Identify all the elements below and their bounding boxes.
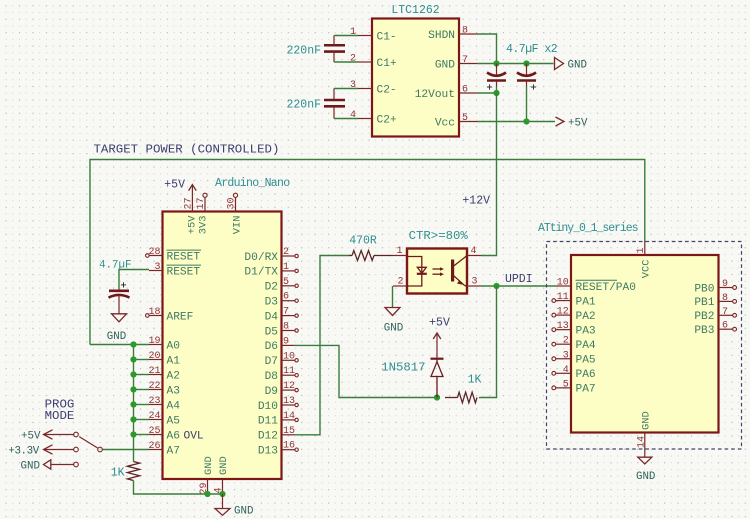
wire C1 to U1 bbox=[334, 35, 358, 37]
svg-text:D7: D7 bbox=[265, 356, 278, 368]
svg-text:A0: A0 bbox=[167, 340, 181, 352]
svg-text:AREF: AREF bbox=[167, 311, 194, 323]
wire C2 to U1 bbox=[334, 88, 358, 90]
svg-text:22: 22 bbox=[148, 381, 160, 392]
svg-text:+12V: +12V bbox=[462, 195, 490, 208]
diode D1 1N5817 bbox=[381, 359, 443, 398]
svg-text:5: 5 bbox=[563, 379, 569, 390]
IC U4 ATtiny_0_1_series bbox=[538, 222, 736, 448]
global label +5V (top right) bbox=[556, 117, 588, 130]
svg-text:VIN: VIN bbox=[232, 216, 244, 235]
svg-text:CTR>=80%: CTR>=80% bbox=[409, 229, 469, 243]
svg-text:GND: GND bbox=[234, 506, 253, 518]
svg-text:7: 7 bbox=[462, 55, 468, 66]
dashed outline box (ATtiny group) bbox=[547, 242, 742, 450]
global label GND (switch) bbox=[21, 460, 74, 473]
wire TARGET POWER net: A0 column to ATtiny VCC bbox=[90, 160, 645, 345]
wire A4 stub bbox=[134, 404, 150, 406]
svg-text:C2-: C2- bbox=[377, 85, 397, 97]
wire A2 stub bbox=[134, 374, 150, 376]
wire A5 stub bbox=[134, 419, 150, 421]
svg-text:4: 4 bbox=[350, 110, 356, 121]
resistor R1 1K (pulldown) bbox=[111, 462, 140, 481]
svg-text:30: 30 bbox=[227, 197, 238, 209]
wire R1 to GND rail bbox=[134, 481, 223, 495]
svg-text:PA6: PA6 bbox=[576, 369, 596, 381]
svg-text:2: 2 bbox=[397, 277, 403, 288]
svg-text:PA2: PA2 bbox=[576, 311, 596, 323]
svg-text:+3.3V: +3.3V bbox=[8, 445, 39, 457]
svg-text:D12: D12 bbox=[258, 431, 278, 443]
svg-text:D6: D6 bbox=[265, 341, 278, 353]
svg-text:220nF: 220nF bbox=[286, 45, 321, 58]
svg-text:1: 1 bbox=[636, 247, 647, 253]
svg-text:1N5817: 1N5817 bbox=[381, 361, 425, 375]
svg-text:1: 1 bbox=[283, 262, 289, 273]
capacitor C2 220nF bbox=[286, 89, 345, 119]
wire A3 stub bbox=[134, 389, 150, 391]
wire A column vertical bbox=[133, 345, 135, 462]
wire Vcc / +5V bbox=[478, 121, 556, 123]
junction diode/R4 bbox=[434, 394, 440, 400]
global label +5V (switch) bbox=[21, 430, 73, 443]
svg-text:21: 21 bbox=[148, 366, 160, 377]
IC U1 LTC1262 bbox=[350, 4, 478, 137]
svg-text:GND: GND bbox=[636, 471, 655, 483]
svg-text:D0/RX: D0/RX bbox=[244, 252, 278, 264]
svg-text:1: 1 bbox=[396, 246, 402, 257]
svg-text:+5V: +5V bbox=[164, 179, 185, 192]
svg-text:D8: D8 bbox=[265, 371, 278, 383]
svg-text:PB3: PB3 bbox=[694, 325, 714, 337]
ground (ATtiny) bbox=[636, 447, 655, 483]
svg-text:12: 12 bbox=[283, 381, 295, 392]
svg-text:18: 18 bbox=[148, 307, 160, 318]
svg-text:PB1: PB1 bbox=[694, 297, 714, 309]
wire U2 pin3 to C5 bbox=[119, 270, 149, 289]
junction GND pin4 bbox=[219, 491, 225, 497]
resistor R3 470R bbox=[349, 235, 393, 261]
svg-text:D10: D10 bbox=[258, 401, 278, 413]
ground (Arduino) bbox=[215, 494, 253, 518]
svg-text:6: 6 bbox=[722, 321, 728, 332]
svg-text:PB2: PB2 bbox=[694, 311, 714, 323]
svg-text:24: 24 bbox=[148, 411, 160, 422]
svg-text:PA5: PA5 bbox=[576, 355, 596, 367]
svg-text:7: 7 bbox=[283, 307, 289, 318]
resistor R4 1K bbox=[445, 374, 481, 403]
ground (opto pin 2) bbox=[384, 286, 403, 335]
junction GND/C4 bbox=[523, 60, 529, 66]
junction UPDI bbox=[493, 283, 499, 289]
svg-text:ATtiny_0_1_series: ATtiny_0_1_series bbox=[538, 222, 638, 235]
svg-text:10: 10 bbox=[283, 351, 295, 362]
capacitor C4 4.7uF bbox=[517, 64, 536, 122]
ground (C5) bbox=[107, 314, 127, 343]
svg-text:GND: GND bbox=[203, 456, 215, 475]
svg-text:9: 9 bbox=[722, 279, 728, 290]
svg-text:A2: A2 bbox=[167, 370, 180, 382]
capacitor C5 4.7uF bbox=[99, 260, 131, 314]
svg-text:25: 25 bbox=[148, 426, 160, 437]
svg-text:SHDN: SHDN bbox=[428, 30, 455, 42]
svg-text:11: 11 bbox=[283, 366, 295, 377]
svg-text:9: 9 bbox=[283, 336, 289, 347]
svg-text:19: 19 bbox=[148, 336, 160, 347]
svg-text:A7: A7 bbox=[167, 445, 180, 457]
wire +12V down to optocoupler pin 4 bbox=[481, 93, 497, 256]
svg-text:Arduino_Nano: Arduino_Nano bbox=[215, 177, 290, 190]
power symbol +5V (Arduino pin 27) bbox=[164, 179, 196, 198]
svg-text:GND: GND bbox=[640, 411, 652, 430]
svg-text:GND: GND bbox=[107, 331, 126, 343]
svg-text:A3: A3 bbox=[167, 385, 180, 397]
svg-text:D11: D11 bbox=[258, 416, 278, 428]
svg-text:PA3: PA3 bbox=[576, 325, 596, 337]
junction A6 bbox=[130, 431, 136, 437]
wire 12Vout bbox=[478, 92, 497, 94]
wire UPDI down to R4 bbox=[479, 286, 497, 398]
svg-text:A1: A1 bbox=[167, 355, 181, 367]
svg-text:13: 13 bbox=[557, 321, 569, 332]
wire D12 to 470R bbox=[295, 256, 349, 435]
svg-text:3: 3 bbox=[472, 277, 478, 288]
svg-text:GND: GND bbox=[21, 460, 40, 472]
junction Vcc/C4 bbox=[523, 118, 529, 124]
svg-text:2: 2 bbox=[563, 336, 569, 347]
optocoupler U3 bbox=[393, 229, 481, 294]
wire SHDN to GND net bbox=[478, 34, 497, 64]
svg-text:A4: A4 bbox=[167, 400, 181, 412]
svg-text:11: 11 bbox=[557, 292, 569, 303]
junction GND/C3 bbox=[493, 60, 499, 66]
global label GND (top right) bbox=[555, 58, 587, 72]
svg-text:PA4: PA4 bbox=[576, 340, 596, 352]
svg-text:GND: GND bbox=[435, 60, 455, 72]
svg-text:PA1: PA1 bbox=[576, 296, 596, 308]
junction GND pin29 bbox=[204, 491, 210, 497]
svg-text:1K: 1K bbox=[111, 467, 125, 480]
svg-text:C1+: C1+ bbox=[377, 58, 397, 70]
svg-text:+5V: +5V bbox=[21, 430, 41, 442]
svg-text:+5V: +5V bbox=[429, 317, 450, 330]
IC U2 Arduino_Nano bbox=[146, 177, 299, 495]
svg-text:RESET/PA0: RESET/PA0 bbox=[576, 282, 637, 294]
svg-text:14: 14 bbox=[283, 411, 295, 422]
wire A1 stub bbox=[134, 359, 150, 361]
svg-text:8: 8 bbox=[722, 293, 728, 304]
global label +3.3V (switch) bbox=[8, 445, 73, 458]
svg-text:C1-: C1- bbox=[377, 32, 397, 44]
svg-text:20: 20 bbox=[148, 351, 160, 362]
svg-text:8: 8 bbox=[283, 322, 289, 333]
svg-text:28: 28 bbox=[148, 247, 160, 258]
junction A0 bbox=[130, 341, 136, 347]
svg-text:10: 10 bbox=[557, 278, 569, 289]
svg-text:D3: D3 bbox=[265, 297, 278, 309]
capacitor C1 220nF bbox=[286, 36, 345, 63]
svg-text:VCC: VCC bbox=[640, 260, 652, 279]
svg-text:2: 2 bbox=[283, 247, 289, 258]
svg-text:OVL: OVL bbox=[184, 430, 204, 442]
svg-text:26: 26 bbox=[148, 441, 160, 452]
svg-text:RESET: RESET bbox=[167, 251, 201, 263]
junction A2 bbox=[130, 371, 136, 377]
wire A6 stub bbox=[134, 434, 150, 436]
svg-text:C2+: C2+ bbox=[377, 115, 397, 127]
junction A5 bbox=[130, 416, 136, 422]
svg-text:14: 14 bbox=[636, 436, 647, 448]
svg-text:6: 6 bbox=[283, 292, 289, 303]
svg-text:Vcc: Vcc bbox=[435, 118, 455, 130]
svg-text:GND: GND bbox=[218, 456, 230, 475]
junction A4 bbox=[130, 401, 136, 407]
svg-text:A6: A6 bbox=[167, 430, 180, 442]
capacitor C3 4.7uF bbox=[487, 64, 506, 94]
svg-text:7: 7 bbox=[722, 307, 728, 318]
svg-text:3: 3 bbox=[563, 350, 569, 361]
power symbol +5V (diode) bbox=[429, 317, 450, 359]
junction A3 bbox=[130, 386, 136, 392]
svg-text:17: 17 bbox=[196, 197, 207, 209]
svg-text:13: 13 bbox=[283, 396, 295, 407]
wire D6 to diode junction bbox=[295, 345, 437, 397]
junction A1 bbox=[130, 356, 136, 362]
wire UPDI bbox=[481, 285, 556, 287]
svg-text:2: 2 bbox=[350, 54, 356, 65]
svg-text:1K: 1K bbox=[468, 374, 482, 387]
svg-text:D5: D5 bbox=[265, 326, 278, 338]
svg-text:16: 16 bbox=[283, 441, 295, 452]
svg-text:3V3: 3V3 bbox=[198, 216, 210, 235]
svg-text:15: 15 bbox=[283, 426, 295, 437]
wire GND net (pin 7) bbox=[478, 63, 554, 65]
svg-text:A5: A5 bbox=[167, 415, 180, 427]
svg-text:D13: D13 bbox=[258, 446, 278, 458]
svg-text:6: 6 bbox=[462, 85, 468, 96]
svg-text:1: 1 bbox=[350, 27, 356, 38]
svg-text:LTC1262: LTC1262 bbox=[391, 4, 439, 17]
svg-text:8: 8 bbox=[462, 26, 468, 37]
wire switch common to A7 bbox=[103, 449, 150, 451]
svg-text:GND: GND bbox=[384, 323, 403, 335]
svg-text:D9: D9 bbox=[265, 386, 278, 398]
svg-text:TARGET POWER (CONTROLLED): TARGET POWER (CONTROLLED) bbox=[94, 143, 280, 157]
svg-text:4.7µF: 4.7µF bbox=[99, 260, 131, 272]
svg-text:12Vout: 12Vout bbox=[415, 89, 455, 101]
svg-text:+5V: +5V bbox=[568, 118, 588, 130]
svg-text:4: 4 bbox=[563, 365, 569, 376]
svg-text:23: 23 bbox=[148, 396, 160, 407]
svg-text:3: 3 bbox=[154, 262, 160, 273]
svg-text:RESET: RESET bbox=[167, 266, 201, 278]
svg-text:PA7: PA7 bbox=[576, 384, 596, 396]
svg-text:5: 5 bbox=[283, 277, 289, 288]
svg-text:PB0: PB0 bbox=[694, 283, 714, 295]
svg-text:UPDI: UPDI bbox=[505, 273, 533, 286]
svg-text:D2: D2 bbox=[265, 282, 278, 294]
wire A0 row bbox=[90, 344, 149, 346]
svg-text:GND: GND bbox=[568, 60, 587, 72]
switch SW1 SP3T bbox=[74, 432, 103, 467]
svg-text:220nF: 220nF bbox=[286, 99, 321, 112]
svg-text:4.7µF x2: 4.7µF x2 bbox=[506, 43, 558, 56]
svg-text:3: 3 bbox=[350, 80, 356, 91]
junction 12Vout bbox=[493, 90, 499, 96]
svg-text:27: 27 bbox=[183, 197, 194, 209]
svg-text:D1/TX: D1/TX bbox=[244, 267, 278, 279]
svg-text:5: 5 bbox=[462, 113, 468, 124]
svg-text:D4: D4 bbox=[265, 311, 279, 323]
svg-text:470R: 470R bbox=[349, 235, 377, 248]
svg-text:12: 12 bbox=[557, 307, 569, 318]
svg-text:4: 4 bbox=[471, 246, 477, 257]
svg-text:MODE: MODE bbox=[45, 409, 75, 423]
